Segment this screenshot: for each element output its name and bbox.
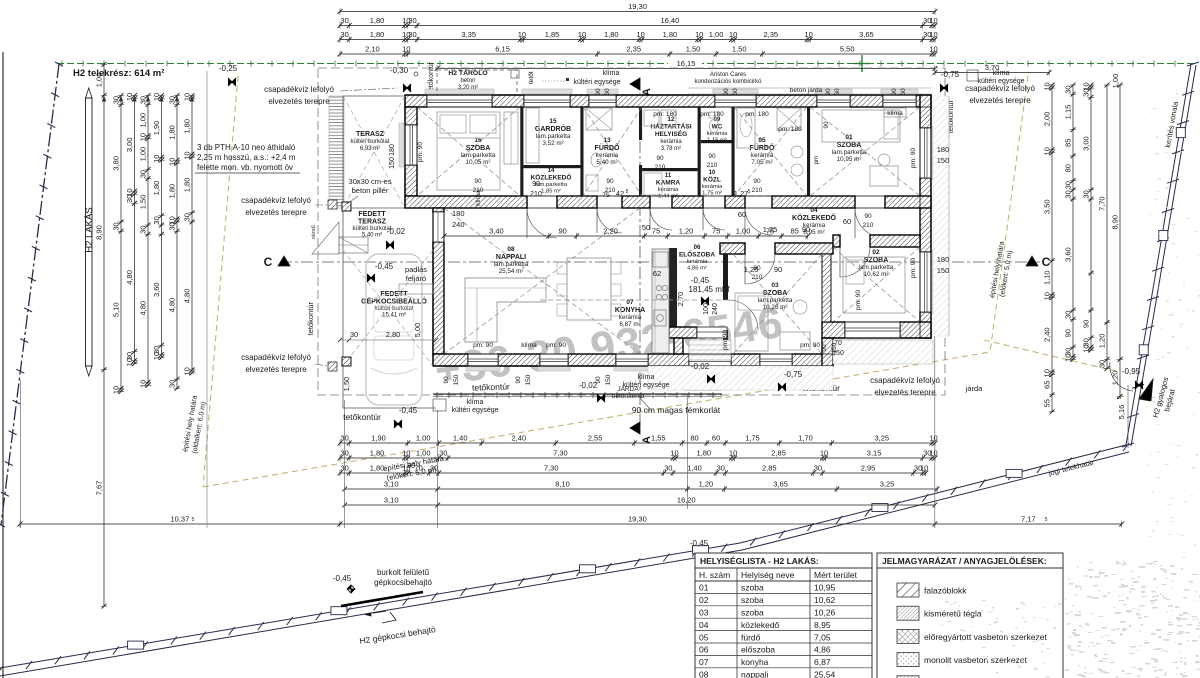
svg-text:90: 90 [559, 227, 567, 236]
svg-text:pm: 90: pm: 90 [910, 258, 917, 278]
svg-text:2,85: 2,85 [771, 449, 786, 458]
svg-text:Ariston Cares: Ariston Cares [710, 72, 746, 78]
svg-text:2,95: 2,95 [861, 464, 876, 473]
svg-text:ELŐSZOBA: ELŐSZOBA [679, 250, 715, 259]
svg-text:falazóblokk: falazóblokk [924, 586, 967, 596]
dim 5,16 along fence [1127, 385, 1129, 448]
svg-text:FÜRDŐ: FÜRDŐ [750, 143, 775, 152]
building envelope dashed line - front right corner [984, 340, 1120, 372]
svg-text:-0,45: -0,45 [691, 276, 710, 285]
gate posts on bottom boundary [128, 641, 144, 649]
svg-text:90: 90 [891, 88, 898, 96]
dim 16,15 below green line [668, 58, 702, 67]
svg-text:240: 240 [712, 303, 719, 315]
svg-text:10: 10 [112, 386, 121, 394]
svg-text:1,20: 1,20 [679, 227, 694, 236]
svg-text:WC: WC [712, 124, 723, 131]
svg-text:10: 10 [1043, 292, 1052, 300]
driveway pavement thick segment [341, 592, 423, 606]
svg-text:lam.parketta: lam.parketta [494, 261, 529, 268]
svg-text:1,55: 1,55 [651, 434, 666, 443]
svg-text:3,60: 3,60 [152, 282, 161, 297]
sheet left frame line [2, 52, 4, 678]
svg-text:10: 10 [1043, 369, 1052, 377]
svg-text:TERASZ: TERASZ [356, 131, 385, 138]
porch west wall [674, 338, 683, 354]
jarda walkway hatch bottom right [648, 366, 833, 390]
wall face lines left right [404, 95, 406, 208]
svg-text:8,90: 8,90 [95, 225, 104, 240]
building envelope dashed line - front elokert [203, 352, 990, 487]
dim 3,70 top right [935, 72, 1049, 74]
svg-text:beton: beton [460, 78, 475, 84]
extension lines bottom [344, 400, 346, 528]
bed szoba01 [822, 110, 900, 142]
svg-text:szoba: szoba [741, 583, 764, 593]
svg-text:1,50: 1,50 [342, 377, 351, 392]
exterior wall top [405, 95, 427, 107]
svg-text:4,80: 4,80 [168, 298, 177, 313]
svg-text:10: 10 [636, 30, 644, 39]
svg-text:3,65: 3,65 [859, 30, 874, 39]
svg-text:3,25: 3,25 [880, 480, 895, 489]
svg-text:90: 90 [802, 225, 810, 234]
svg-text:kültéri egysége: kültéri egysége [977, 78, 1024, 85]
svg-text:4,86: 4,86 [814, 645, 831, 655]
svg-text:kerámia: kerámia [751, 152, 774, 159]
svg-text:30: 30 [139, 96, 148, 104]
svg-text:04: 04 [699, 620, 709, 630]
svg-text:06: 06 [699, 645, 709, 655]
corridor bottom wall szoba03 top [720, 243, 745, 254]
legend swatch cut [897, 676, 919, 678]
svg-text:16,20: 16,20 [677, 496, 696, 505]
svg-text:30: 30 [1064, 190, 1073, 198]
svg-text:4,80: 4,80 [139, 301, 148, 316]
svg-text:75: 75 [602, 192, 610, 199]
svg-text:30: 30 [139, 170, 148, 178]
svg-text:80: 80 [1064, 164, 1073, 172]
svg-text:H2 LAKÁS: H2 LAKÁS [84, 207, 95, 252]
svg-text:30: 30 [350, 330, 358, 339]
svg-text:1,40: 1,40 [453, 434, 468, 443]
svg-text:FÜRDŐ: FÜRDŐ [595, 143, 620, 152]
svg-text:KÖZL: KÖZL [703, 175, 721, 184]
svg-text:tetőkontúr: tetőkontúr [306, 302, 315, 336]
partition furdo13-hazt12 [639, 107, 642, 140]
svg-text:10,26 m²: 10,26 m² [763, 304, 788, 311]
svg-text:-0,45: -0,45 [399, 406, 418, 415]
svg-text:60: 60 [900, 88, 907, 96]
svg-text:pm: 180: pm: 180 [745, 111, 769, 118]
H2 gyalogos bejarat arrow [1139, 379, 1153, 401]
sofa nappali L-shape [465, 278, 546, 342]
terasz door in west wall [433, 212, 444, 242]
svg-text:feljáró: feljáró [406, 274, 426, 283]
svg-text:kerámia: kerámia [707, 131, 728, 137]
section line C-C horizontal dash-dot [280, 261, 1040, 263]
right vdim chain 5 [1119, 85, 1121, 396]
svg-text:6,15: 6,15 [495, 45, 510, 54]
svg-text:KONYHA: KONYHA [615, 307, 645, 314]
svg-text:10: 10 [695, 30, 703, 39]
svg-text:1,50: 1,50 [686, 45, 701, 54]
svg-text:3 db PTH A-10 neo áthidaló: 3 db PTH A-10 neo áthidaló [197, 143, 296, 152]
svg-text:10: 10 [518, 30, 526, 39]
svg-text:90: 90 [708, 153, 716, 160]
svg-text:lam.parketta: lam.parketta [536, 133, 571, 140]
svg-text:pm: 90: pm: 90 [910, 148, 917, 168]
bottom dim chain row2 [340, 457, 935, 459]
svg-text:1,90: 1,90 [152, 121, 161, 136]
svg-text:kültéri burkolat: kültéri burkolat [374, 306, 413, 312]
svg-text:SZOBA: SZOBA [466, 145, 491, 152]
svg-text:tetőt: tetőt [528, 71, 535, 84]
svg-text:10: 10 [152, 93, 161, 101]
svg-text:csapadékvíz lefolyó: csapadékvíz lefolyó [965, 84, 1035, 93]
svg-text:1,15 m²: 1,15 m² [707, 138, 727, 144]
svg-text:kondenzációs kombicirkó: kondenzációs kombicirkó [694, 79, 762, 85]
svg-text:csapadékvíz lefolyó: csapadékvíz lefolyó [870, 376, 940, 385]
svg-text:100: 100 [703, 303, 710, 315]
svg-text:kerámia: kerámia [619, 314, 642, 321]
railing line bottom terrace [433, 393, 722, 395]
svg-text:közlekedő: közlekedő [741, 620, 780, 630]
svg-text:02: 02 [699, 595, 709, 605]
building envelope dashed line - right [990, 76, 1028, 352]
svg-text:-0,45: -0,45 [333, 574, 352, 583]
bed szoba16 [437, 112, 500, 190]
svg-text:monolit vasbeton szerkezet: monolit vasbeton szerkezet [924, 655, 1028, 665]
green tree symbol [861, 55, 863, 72]
svg-text:7,70: 7,70 [1098, 196, 1107, 211]
svg-text:10: 10 [820, 449, 828, 458]
svg-text:padlás: padlás [405, 265, 427, 274]
kitchen-eloszoba wall [669, 248, 677, 331]
svg-text:60: 60 [732, 88, 739, 96]
svg-text:1,00: 1,00 [139, 147, 148, 162]
svg-text:2,10: 2,10 [365, 45, 380, 54]
svg-text:10: 10 [402, 449, 410, 458]
svg-text:3,80: 3,80 [112, 156, 121, 171]
svg-text:6,87 m²: 6,87 m² [619, 321, 640, 328]
svg-text:kültéri egysége: kültéri egysége [573, 79, 620, 86]
svg-text:10: 10 [152, 155, 161, 163]
svg-text:180: 180 [937, 255, 950, 264]
klima small label szoba01 [884, 108, 906, 117]
shower furdo05 [777, 108, 801, 130]
svg-text:30x30 cm-es: 30x30 cm-es [349, 177, 392, 186]
window in left wall [405, 125, 417, 165]
svg-text:1,00: 1,00 [416, 434, 431, 443]
scan noise right edge [1148, 89, 1200, 558]
svg-text:10: 10 [183, 151, 192, 159]
right vdim chain 2 [1072, 85, 1074, 359]
svg-text:kültéri burkolat: kültéri burkolat [350, 139, 389, 145]
partition furdo05-szoba01 [807, 107, 810, 196]
bottom dim chain row5 [345, 504, 935, 506]
right fence line kerites vonala - double line with ticks [1126, 64, 1191, 445]
svg-text:1,80: 1,80 [370, 464, 385, 473]
svg-text:beton járda: beton járda [790, 87, 823, 94]
beton pillar 30x30 bottom [342, 357, 351, 366]
svg-text:16,15: 16,15 [677, 59, 696, 68]
svg-text:1,80: 1,80 [152, 181, 161, 196]
wc-kozl10 divider [701, 140, 732, 143]
partition szoba16-gardrob [520, 107, 523, 196]
svg-text:30: 30 [139, 225, 148, 233]
svg-text:90: 90 [753, 178, 761, 185]
svg-text:4,86 m²: 4,86 m² [687, 266, 707, 272]
terasz outline [343, 96, 405, 208]
svg-text:fürdő: fürdő [741, 632, 761, 642]
svg-text:10: 10 [1064, 354, 1073, 362]
svg-text:3,10: 3,10 [384, 496, 399, 505]
svg-text:1,27: 1,27 [734, 189, 749, 198]
svg-text:10: 10 [1082, 344, 1091, 352]
svg-text:lam.parketta: lam.parketta [535, 182, 568, 188]
svg-text:10: 10 [578, 30, 586, 39]
svg-text:HELYISÉGLISTA - H2 LAKÁS:: HELYISÉGLISTA - H2 LAKÁS: [700, 556, 819, 566]
svg-text:rézsű: rézsű [311, 225, 317, 238]
svg-text:150: 150 [525, 374, 532, 385]
svg-text:3,52 m²: 3,52 m² [542, 140, 563, 147]
svg-text:90: 90 [474, 178, 482, 185]
svg-text:07: 07 [699, 657, 709, 667]
scan noise bottom right corner [941, 561, 1200, 678]
svg-text:1,85 m²: 1,85 m² [541, 189, 561, 195]
svg-text:kisméretű tégla: kisméretű tégla [924, 609, 982, 619]
svg-text:10: 10 [183, 93, 192, 101]
svg-text:05: 05 [758, 137, 766, 144]
svg-text:-0,75: -0,75 [784, 370, 803, 379]
svg-text:2,80: 2,80 [386, 330, 401, 339]
gyalogos gate arc [1110, 362, 1133, 391]
left vdim chain F [176, 96, 178, 389]
svg-text:C: C [1042, 255, 1051, 269]
left extension line x207 [206, 71, 208, 528]
partition hazt12-wc09 [698, 107, 701, 196]
svg-text:30: 30 [1064, 85, 1073, 93]
svg-text:210: 210 [707, 162, 718, 169]
svg-text:150: 150 [389, 157, 396, 169]
svg-text:4,80: 4,80 [125, 270, 134, 285]
svg-text:90: 90 [515, 376, 522, 384]
building envelope dashed line - left oldalkert [203, 76, 238, 487]
svg-text:1,00: 1,00 [139, 113, 148, 128]
legend swatch kisméretű tégla [897, 606, 919, 620]
svg-text:kerámia: kerámia [702, 184, 723, 190]
svg-text:30: 30 [664, 464, 672, 473]
svg-text:3,25: 3,25 [874, 434, 889, 443]
corridor top wall - interior load bearing [405, 196, 527, 208]
windows in right wall [920, 128, 931, 178]
svg-text:210: 210 [530, 191, 542, 198]
step wall between szoba03 and szoba02 bottom [822, 338, 833, 366]
green site boundary top line [57, 63, 1195, 65]
svg-text:-0,95: -0,95 [1122, 367, 1141, 376]
svg-text:7,30: 7,30 [553, 449, 568, 458]
svg-text:65: 65 [1043, 381, 1052, 389]
svg-text:210: 210 [655, 164, 666, 171]
svg-text:10: 10 [402, 464, 410, 473]
desk chair szoba01 [870, 166, 898, 186]
svg-text:30: 30 [717, 464, 725, 473]
svg-text:NAPPALI: NAPPALI [496, 254, 526, 261]
svg-text:30: 30 [152, 216, 161, 224]
svg-text:70: 70 [834, 340, 842, 347]
sink toilet furdo13 [591, 153, 601, 167]
exterior wall right [920, 95, 931, 128]
svg-text:elvezetés terepre: elvezetés terepre [245, 208, 307, 217]
svg-text:90: 90 [774, 265, 782, 274]
bottom dim chain row4 [345, 488, 937, 490]
svg-text:7,05 m²: 7,05 m² [751, 159, 772, 166]
svg-text:2,40: 2,40 [1043, 327, 1052, 342]
kitchen counter strip [652, 249, 669, 353]
svg-text:1,70: 1,70 [798, 434, 813, 443]
svg-text:3,60: 3,60 [1064, 247, 1073, 262]
svg-text:06: 06 [694, 245, 701, 251]
left chain top arrowheads [102, 96, 106, 102]
svg-text:Helyiség neve: Helyiség neve [741, 570, 795, 580]
svg-text:3,65: 3,65 [773, 480, 788, 489]
svg-text:SZOBA: SZOBA [837, 142, 862, 149]
partition eloszoba-szoba03 [723, 254, 728, 300]
svg-text:-0,75: -0,75 [941, 70, 960, 79]
svg-text:10,37: 10,37 [171, 515, 190, 524]
sinks furdo05 [791, 146, 803, 158]
svg-text:KÖZLEKEDŐ: KÖZLEKEDŐ [792, 213, 837, 222]
partition wc09-furdo05 [732, 107, 735, 196]
windows in top wall [427, 95, 492, 107]
svg-text:-0,02: -0,02 [691, 362, 710, 371]
svg-text:10: 10 [729, 449, 737, 458]
svg-text:elvezetés terepre: elvezetés terepre [245, 365, 307, 374]
svg-text:2,35: 2,35 [626, 45, 641, 54]
svg-text:1,25: 1,25 [763, 225, 778, 234]
left vdim chain E [161, 96, 163, 358]
svg-text:1,50: 1,50 [732, 45, 747, 54]
svg-text:1,10: 1,10 [1043, 270, 1052, 285]
tub furdo05 [737, 108, 755, 148]
bed szoba02 [843, 257, 905, 313]
svg-text:10: 10 [152, 352, 161, 360]
svg-text:2,00: 2,00 [1043, 112, 1052, 127]
svg-text:szoba: szoba [741, 608, 764, 618]
closet szoba16 [504, 112, 518, 164]
svg-text:3,15: 3,15 [867, 449, 882, 458]
svg-text:10: 10 [183, 367, 192, 375]
svg-text:75: 75 [712, 227, 720, 236]
svg-text:60: 60 [738, 210, 746, 219]
svg-text:járda: járda [965, 384, 984, 393]
wc toilet [710, 120, 719, 133]
bottom dim chain row1 [340, 442, 935, 444]
svg-text:1,40: 1,40 [687, 464, 702, 473]
svg-text:tetőkontúr: tetőkontúr [343, 412, 381, 422]
svg-text:10: 10 [804, 30, 812, 39]
klima label top right [967, 70, 978, 81]
svg-text:FEDETT: FEDETT [380, 291, 408, 298]
svg-text:Mért terület: Mért terület [814, 570, 858, 580]
svg-text:1,20: 1,20 [1098, 334, 1107, 349]
svg-text:pm: 90: pm: 90 [722, 330, 729, 350]
top dim chain 19,30 [340, 11, 935, 13]
svg-text:burkolt felületű: burkolt felületű [377, 568, 430, 577]
H2 LAKAS label bar [86, 98, 93, 366]
left vdim chain A [103, 65, 105, 607]
section line A vertical dash-dot [639, 78, 641, 432]
wall face lines corridor wall [405, 195, 931, 197]
windows-doors in bottom wall [468, 354, 498, 366]
svg-text:5: 5 [192, 517, 195, 523]
svg-text:klíma: klíma [521, 342, 537, 349]
svg-text:07: 07 [626, 299, 634, 306]
terrace left edge hatch strip [329, 96, 344, 208]
legend swatch előregyártott vasbeton szerkezet [897, 629, 919, 643]
roof hip dashed diagonals [417, 107, 520, 196]
svg-text:FEDETT: FEDETT [358, 211, 386, 218]
svg-text:2,70: 2,70 [676, 292, 685, 307]
internal dims row corridor [444, 235, 808, 237]
szoba02 bottom wall [822, 322, 845, 338]
svg-text:-0,02: -0,02 [387, 227, 406, 236]
svg-text:klíma: klíma [993, 70, 1010, 77]
svg-text:30: 30 [168, 222, 177, 230]
svg-text:90: 90 [723, 88, 730, 96]
svg-text:beton pillér: beton pillér [352, 186, 389, 195]
svg-text:1,80: 1,80 [183, 119, 192, 134]
svg-text:15: 15 [549, 118, 557, 125]
svg-text:4,80: 4,80 [183, 289, 192, 304]
svg-text:10: 10 [125, 358, 134, 366]
svg-text:csapadékvíz lefolyó: csapadékvíz lefolyó [241, 196, 311, 205]
svg-text:GARDRÓB: GARDRÓB [535, 124, 571, 133]
svg-text:19,30: 19,30 [628, 2, 647, 11]
svg-text:2,35: 2,35 [763, 30, 778, 39]
svg-text:30: 30 [1064, 181, 1073, 189]
svg-text:gépkocsibehajtó: gépkocsibehajtó [374, 578, 432, 587]
svg-text:60: 60 [712, 434, 720, 443]
svg-text:5,10: 5,10 [112, 302, 121, 317]
svg-text:lam.parketta: lam.parketta [461, 152, 496, 159]
top dim chain row3 [340, 39, 935, 41]
svg-text:10: 10 [929, 45, 937, 54]
svg-text:1,44 m²: 1,44 m² [658, 194, 678, 200]
svg-text:2,20: 2,20 [603, 227, 618, 236]
svg-text:HELYISÉG: HELYISÉG [655, 129, 687, 138]
svg-text:180: 180 [937, 145, 950, 154]
svg-text:-0,30: -0,30 [390, 66, 409, 75]
svg-text:10: 10 [929, 449, 937, 458]
svg-text:08: 08 [699, 670, 709, 678]
carport internal dim 30 2,80 [340, 339, 436, 341]
svg-text:kerámia: kerámia [687, 259, 708, 265]
svg-text:kültéri egysége: kültéri egysége [451, 407, 498, 414]
svg-text:180: 180 [389, 144, 396, 156]
level marker driveway [347, 585, 355, 593]
svg-text:KAMRA: KAMRA [656, 180, 680, 187]
svg-text:3,00: 3,00 [1082, 136, 1091, 151]
svg-text:30: 30 [439, 449, 447, 458]
svg-text:01: 01 [845, 134, 853, 141]
exterior wall left upper [405, 107, 417, 125]
svg-text:konyha: konyha [741, 657, 769, 667]
svg-text:10,95: 10,95 [814, 583, 836, 593]
svg-text:30: 30 [168, 380, 177, 388]
svg-text:10: 10 [709, 170, 716, 176]
